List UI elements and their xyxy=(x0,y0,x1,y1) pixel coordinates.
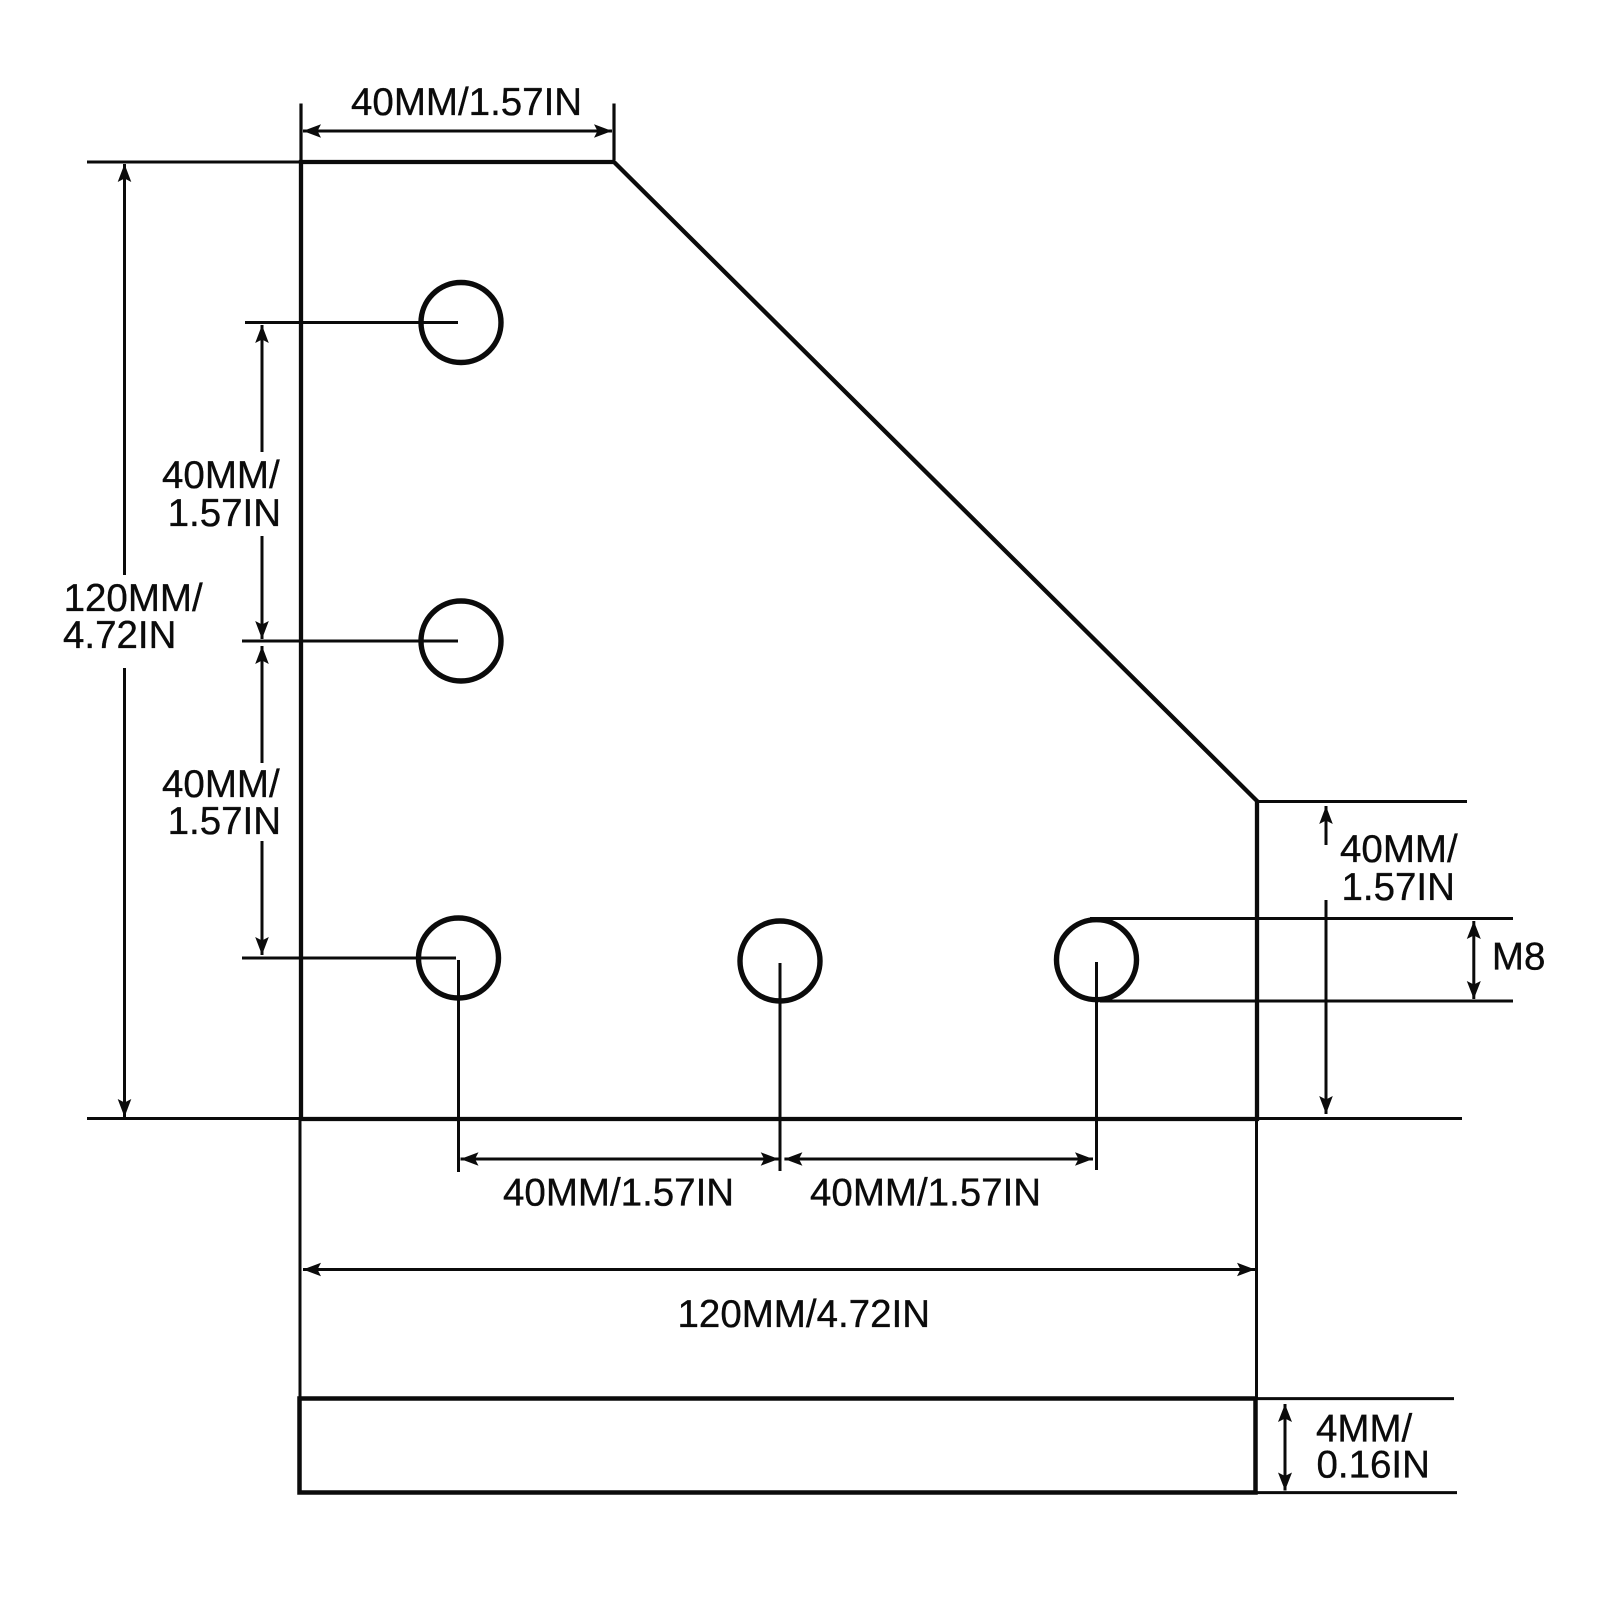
leader line hole H5 down xyxy=(1095,962,1098,1170)
extension right of side view bottom xyxy=(1257,1491,1457,1494)
extension line left dim bottom xyxy=(87,1117,300,1120)
arrowhead dim A top xyxy=(255,325,269,343)
dimension line 4MM xyxy=(1284,1404,1287,1491)
svg-text:40MM/1.57IN: 40MM/1.57IN xyxy=(503,1172,734,1215)
arrowhead M8 bottom xyxy=(1467,981,1481,999)
arrowhead bottom dim1 right xyxy=(761,1152,779,1166)
dimension line 40MM A lower segment xyxy=(261,536,264,639)
dimension line 40MM B upper segment xyxy=(261,646,264,763)
hole H5 bottom-right xyxy=(1057,920,1137,1000)
dimension line left 120MM upper segment xyxy=(123,164,126,575)
arrowhead left dim bottom xyxy=(118,1099,132,1117)
dimension line 40MM B lower segment xyxy=(261,841,264,955)
svg-text:0.16IN: 0.16IN xyxy=(1317,1444,1430,1487)
dimension line left 120MM lower segment xyxy=(123,668,126,1117)
svg-text:M8: M8 xyxy=(1492,936,1545,979)
plate outline (pentagon with chamfered top-right corner) xyxy=(301,162,1257,1119)
arrowhead width dim right xyxy=(1237,1263,1255,1277)
leader line hole H4 down xyxy=(779,963,782,1171)
extension line top dim left xyxy=(299,104,302,161)
svg-text:40MM/1.57IN: 40MM/1.57IN xyxy=(351,81,582,124)
arrowhead left dim top xyxy=(118,164,132,182)
extension line left dim top xyxy=(87,161,300,164)
dimension line bottom 40MM second xyxy=(784,1158,1093,1161)
arrowhead bottom dim2 left xyxy=(784,1152,802,1166)
dimension line top 40MM xyxy=(303,130,612,133)
svg-text:40MM/1.57IN: 40MM/1.57IN xyxy=(810,1172,1041,1215)
dimension line M8 xyxy=(1472,921,1475,999)
extension right of side view top xyxy=(1257,1397,1454,1400)
hole H2 middle-left xyxy=(421,601,501,681)
arrowhead bottom dim1 left xyxy=(461,1152,479,1166)
svg-text:40MM/: 40MM/ xyxy=(162,454,280,497)
leader line hole H3 down xyxy=(457,960,460,1172)
arrowhead 4MM top xyxy=(1278,1404,1292,1422)
svg-text:120MM/4.72IN: 120MM/4.72IN xyxy=(678,1293,931,1336)
M8 tangent line top xyxy=(1090,917,1513,920)
arrowhead dim B bottom xyxy=(255,937,269,955)
extension line right corner xyxy=(1258,800,1467,803)
arrowhead width dim left xyxy=(303,1263,321,1277)
extension below plate left xyxy=(299,1120,302,1398)
svg-text:4.72IN: 4.72IN xyxy=(63,614,176,657)
svg-text:1.57IN: 1.57IN xyxy=(168,492,281,535)
extension below plate right xyxy=(1255,1120,1258,1398)
arrowhead right dim bottom xyxy=(1319,1096,1333,1114)
extension line bottom edge right xyxy=(1258,1117,1462,1120)
arrowhead dim B top xyxy=(255,646,269,664)
svg-text:1.57IN: 1.57IN xyxy=(1342,866,1455,909)
extension line top dim right xyxy=(612,104,615,161)
M8 tangent line bottom xyxy=(1100,1000,1513,1003)
arrowhead dim A bottom xyxy=(255,621,269,639)
arrowhead top dim right xyxy=(594,124,612,138)
hole H4 bottom-middle xyxy=(740,921,820,1001)
leader line hole H3 xyxy=(242,957,456,960)
arrowhead top dim left xyxy=(303,124,321,138)
arrowhead 4MM bottom xyxy=(1278,1473,1292,1491)
arrowhead M8 top xyxy=(1467,921,1481,939)
hole H1 top-left xyxy=(421,283,501,363)
dimension line width 120MM xyxy=(303,1268,1255,1271)
dimension line 40MM A upper segment xyxy=(261,325,264,452)
svg-text:40MM/: 40MM/ xyxy=(1340,828,1458,871)
leader line hole H1 xyxy=(245,321,458,324)
leader line hole H2 xyxy=(242,640,458,643)
arrowhead right dim top xyxy=(1319,806,1333,824)
dimension line right 40MM upper segment xyxy=(1325,806,1328,845)
svg-text:1.57IN: 1.57IN xyxy=(168,800,281,843)
arrowhead bottom dim2 right xyxy=(1075,1152,1093,1166)
dimension line bottom 40MM first xyxy=(461,1158,779,1161)
side view rectangle (bottom) xyxy=(300,1399,1256,1493)
hole H3 bottom-left xyxy=(419,918,499,998)
dimension line right 40MM lower segment xyxy=(1325,900,1328,1114)
